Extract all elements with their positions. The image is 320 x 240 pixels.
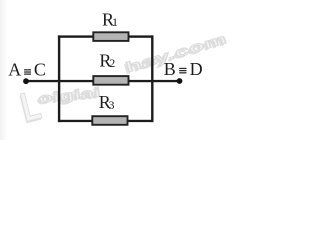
watermark Loigiaihay.com (decorative): [17, 84, 44, 128]
resistor R1: [93, 32, 128, 41]
resistor R3: [92, 116, 127, 125]
equivalence sign between B and D: [179, 68, 186, 74]
equivalence sign between A and C: [24, 69, 31, 75]
wire: top branch (R1 branch): [58, 35, 154, 37]
svg-text:1: 1: [112, 15, 118, 29]
wire: right vertical bus: [151, 35, 153, 122]
resistor R2: [93, 76, 128, 85]
svg-text:B: B: [164, 59, 176, 79]
node B (terminal dot): [177, 78, 183, 84]
svg-text:C: C: [34, 60, 46, 80]
wire: middle branch (R2 branch): [26, 80, 180, 82]
svg-text:3: 3: [109, 98, 115, 112]
svg-text:2: 2: [109, 56, 115, 70]
svg-text:A: A: [8, 60, 21, 80]
wire: bottom branch (R3 branch): [58, 120, 154, 122]
wire: left vertical bus: [58, 35, 60, 122]
svg-text:D: D: [190, 59, 203, 79]
node A (terminal dot): [23, 78, 29, 84]
